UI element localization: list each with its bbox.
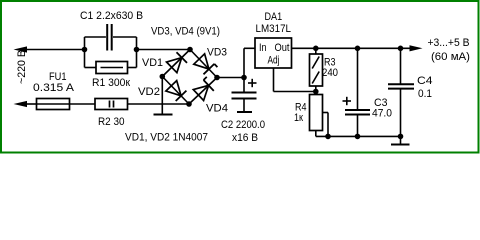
wire to bridge top: [137, 49, 191, 51]
wire bottom DC rail: [316, 135, 401, 137]
node bridge left: [160, 74, 166, 80]
label C3 plus: [343, 97, 352, 105]
node R4 wiper on rail: [325, 134, 331, 140]
resistor R1: [85, 62, 137, 74]
resistor R3: [310, 48, 323, 91]
svg-text:240: 240: [322, 67, 338, 79]
fuse FU1: [37, 99, 70, 110]
svg-text:C2 2200.0: C2 2200.0: [221, 119, 265, 131]
wire DA1 Out rail to output arrow: [292, 45, 423, 51]
node C3 bottom: [355, 134, 361, 140]
ground bar left: [154, 114, 173, 116]
capacitor C1: [85, 24, 137, 51]
wire DA1 Adj to R3 R4 junction: [274, 68, 316, 92]
wire FU1 to R2: [70, 103, 96, 105]
capacitor C2: [232, 78, 257, 113]
resistor R4 trimmer: [310, 92, 329, 137]
wire R2 to bridge bottom node: [128, 103, 190, 105]
svg-text:(60 мА): (60 мА): [431, 51, 470, 63]
svg-text:C1 2.2x630 В: C1 2.2x630 В: [80, 10, 143, 22]
node Adj junction: [313, 89, 319, 95]
svg-text:VD1, VD2 1N4007: VD1, VD2 1N4007: [125, 132, 208, 144]
svg-text:0.1: 0.1: [418, 88, 432, 100]
svg-text:In: In: [259, 42, 267, 54]
svg-text:1к: 1к: [294, 112, 303, 124]
svg-text:VD4: VD4: [206, 103, 228, 115]
node C2 top junction: [241, 75, 247, 81]
svg-text:0.315 A: 0.315 A: [33, 82, 75, 94]
svg-text:Adj: Adj: [268, 55, 280, 67]
node bridge bottom: [186, 101, 192, 107]
ground bar under C2: [237, 111, 252, 113]
svg-text:LM317L: LM317L: [256, 23, 292, 35]
diode VD2: [166, 81, 187, 101]
wire up to DA1 In: [244, 48, 255, 77]
wire bridge left node to ground: [161, 77, 163, 115]
node left side of C1/R1 block: [82, 37, 88, 68]
bridge frame wires: [162, 50, 217, 105]
node bridge right: [214, 75, 220, 81]
node R3 top: [313, 46, 319, 52]
zener diode VD4: [193, 77, 214, 101]
svg-text:VD2: VD2: [138, 86, 160, 98]
svg-text:VD1: VD1: [142, 57, 163, 69]
svg-text:DA1: DA1: [265, 11, 283, 23]
node bridge top: [187, 47, 193, 53]
capacitor C4: [388, 48, 414, 136]
resistor R2: [95, 99, 128, 110]
node right side of C1/R1 block: [134, 37, 140, 68]
svg-text:+3...+5 В: +3...+5 В: [428, 37, 470, 49]
svg-text:C4: C4: [417, 75, 433, 87]
wire bottom AC line with left arrow: [14, 101, 37, 107]
svg-text:VD3, VD4 (9V1): VD3, VD4 (9V1): [151, 26, 220, 38]
svg-text:Out: Out: [275, 42, 290, 54]
capacitor C3: [345, 48, 370, 136]
ground right: [391, 136, 410, 144]
op-amp U1 regulator DA1 box: [255, 38, 292, 68]
svg-text:x16 В: x16 В: [232, 132, 258, 144]
zener diode VD3: [194, 54, 218, 75]
svg-text:~220 В: ~220 В: [16, 50, 28, 84]
svg-text:R1 300к: R1 300к: [92, 77, 130, 89]
svg-text:VD3: VD3: [207, 47, 227, 59]
node output junction: [398, 46, 404, 52]
label C2 plus: [248, 79, 257, 87]
wire top AC line with left arrow: [14, 46, 85, 52]
node bottom rail right end: [398, 134, 404, 140]
node C3 top: [355, 46, 361, 52]
svg-text:R2 30: R2 30: [98, 116, 125, 128]
wire bridge right node to C2 junction: [217, 77, 244, 79]
diode VD1: [167, 52, 188, 72]
svg-text:47.0: 47.0: [372, 108, 392, 120]
